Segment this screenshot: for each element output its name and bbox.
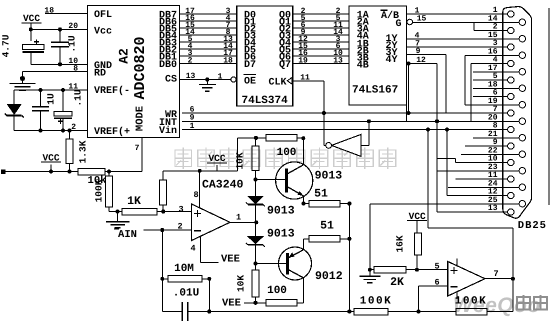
wire bias rail <box>1 170 6 175</box>
wire CS to OE with ground <box>180 79 231 81</box>
wire inverter input from INT line <box>361 144 369 146</box>
svg-text:9012: 9012 <box>315 270 343 283</box>
svg-text:CS: CS <box>165 75 177 86</box>
svg-text:100K: 100K <box>455 296 487 308</box>
svg-text:51: 51 <box>320 219 334 232</box>
node VREF(-) rail <box>14 89 87 91</box>
svg-text:100: 100 <box>267 285 287 297</box>
ground (top-left) <box>22 79 24 84</box>
svg-text:2: 2 <box>71 123 76 132</box>
svg-text:9013: 9013 <box>267 205 295 218</box>
svg-text:Vcc: Vcc <box>94 27 112 38</box>
bus DB7-DB0 wires U1 to U2 <box>180 13 237 15</box>
U2 OE bubble <box>231 77 236 82</box>
svg-text:VEE: VEE <box>221 254 240 266</box>
routing verticals to J1 <box>473 22 475 31</box>
svg-text:.01U: .01U <box>173 288 199 300</box>
svg-text:.1U: .1U <box>73 89 84 106</box>
zener diode D1 <box>13 90 15 104</box>
U3 G bubble <box>407 19 413 25</box>
svg-text:1K: 1K <box>127 195 141 208</box>
connector J1 DB25 shell <box>503 7 532 219</box>
wire Vin line <box>182 129 508 131</box>
svg-text:74LS167: 74LS167 <box>352 85 398 97</box>
wire RD pin8 to ground <box>22 72 24 79</box>
op IC U3 74LS157 body <box>349 6 407 105</box>
bus Q0-Q7 wires U2 to U3 <box>293 13 349 15</box>
svg-text:OE: OE <box>244 77 256 88</box>
svg-text:1: 1 <box>218 72 223 81</box>
svg-text:1.3K: 1.3K <box>78 140 89 163</box>
svg-text:100K: 100K <box>94 179 105 202</box>
svg-text:4: 4 <box>190 244 195 254</box>
transistor Q2 9012 <box>279 247 312 280</box>
svg-text:100K: 100K <box>360 296 392 308</box>
svg-text:100: 100 <box>277 147 297 159</box>
svg-text:DB25: DB25 <box>518 220 547 232</box>
svg-text:VEE: VEE <box>222 298 241 310</box>
wire threshold node vertical <box>369 204 371 270</box>
svg-text:51: 51 <box>314 188 328 201</box>
svg-text:2K: 2K <box>390 276 404 289</box>
wire chip-edge drop <box>406 105 408 121</box>
svg-text:CLK: CLK <box>268 77 286 88</box>
wire U6 pin6 <box>419 285 448 287</box>
op IC U2 74LS374 body <box>237 6 293 106</box>
svg-text:1: 1 <box>190 122 195 131</box>
wire VCC rail to Q1 bias <box>163 170 237 172</box>
svg-text:Q7: Q7 <box>279 60 291 71</box>
output bus wire <box>348 204 350 312</box>
node VREF(+) rail <box>14 130 87 132</box>
watermark: company name (gray CJK strokes) <box>175 148 396 170</box>
svg-text:16K: 16K <box>395 235 406 252</box>
svg-text:10M: 10M <box>174 263 194 275</box>
svg-text:OFL: OFL <box>94 10 112 21</box>
svg-text:2: 2 <box>188 56 193 65</box>
svg-text:5: 5 <box>434 262 439 272</box>
svg-text:MODE: MODE <box>135 106 147 131</box>
svg-text:9013: 9013 <box>267 228 295 241</box>
resistor R8 10K pull-up <box>162 171 164 180</box>
wire staircase to J1 pin10 <box>435 119 439 123</box>
svg-text:7: 7 <box>493 269 498 279</box>
transistor Q1 9013 <box>276 162 313 199</box>
svg-text:G: G <box>396 19 402 30</box>
svg-text:D7: D7 <box>244 60 256 71</box>
svg-text:1: 1 <box>236 212 241 222</box>
svg-text:19: 19 <box>298 56 308 65</box>
svg-text:AIN: AIN <box>118 229 137 241</box>
wire vertical to J1 pin12 <box>445 128 449 132</box>
U6 supply pin stubs <box>456 259 458 267</box>
svg-text:DB0: DB0 <box>159 60 177 71</box>
input terminal AIN <box>114 228 119 230</box>
svg-text:18: 18 <box>223 56 233 65</box>
svg-text:3: 3 <box>178 204 183 214</box>
wire U6 output pin7 <box>485 278 513 280</box>
wire U5 output pin1 <box>230 221 256 223</box>
svg-text:1U: 1U <box>46 93 57 105</box>
wire INT line <box>182 120 519 122</box>
U2 CLK pin11 wire <box>293 80 324 82</box>
svg-text:CA3240: CA3240 <box>202 179 244 192</box>
ADC mode pin wire <box>141 138 143 172</box>
svg-text:11: 11 <box>68 83 78 92</box>
svg-text:13: 13 <box>488 204 498 213</box>
svg-text:7: 7 <box>135 144 140 153</box>
wire U6 output feedback/route <box>512 279 514 312</box>
ground (CS/OE) <box>206 80 208 85</box>
ground (threshold) <box>369 271 371 276</box>
svg-text:13: 13 <box>333 56 343 65</box>
svg-text:4.7U: 4.7U <box>1 34 12 57</box>
wire U5 V+ pin8 <box>199 171 201 208</box>
svg-text:9013: 9013 <box>315 169 343 182</box>
ground (input) <box>117 212 119 222</box>
svg-text:RD: RD <box>94 69 106 80</box>
svg-text:74LS374: 74LS374 <box>242 95 289 107</box>
svg-text:.1U: .1U <box>67 35 78 52</box>
wire 3Y drop <box>407 54 446 56</box>
inverter U4 <box>332 134 362 156</box>
svg-text:10K: 10K <box>236 275 247 292</box>
op-amp U6 comparator <box>448 262 485 297</box>
svg-text:11: 11 <box>300 74 310 83</box>
svg-text:8: 8 <box>193 190 198 200</box>
svg-text:ADC0820: ADC0820 <box>132 36 149 99</box>
svg-text:15: 15 <box>417 14 427 23</box>
J1 pins 1-25 circles, stubs and numbers <box>407 13 508 15</box>
svg-text:VREF(+: VREF(+ <box>94 126 130 138</box>
svg-text:10K: 10K <box>234 152 245 169</box>
op IC U1 ADC0820 body <box>88 6 180 138</box>
svg-text:4Y: 4Y <box>386 55 398 66</box>
wire 4Y drop to pin13 <box>407 63 437 65</box>
wire U5 V- pin4 to VEE <box>200 236 202 263</box>
svg-text:A2: A2 <box>117 48 132 64</box>
svg-text:Vin: Vin <box>159 125 177 137</box>
wire WR line <box>182 112 508 114</box>
svg-text:VREF(-: VREF(- <box>94 85 130 97</box>
wire VCC to pin20 rail <box>30 23 32 41</box>
diode D2 9013 <box>255 180 257 196</box>
svg-text:13: 13 <box>186 72 196 81</box>
svg-text:4B: 4B <box>357 61 369 72</box>
J1 right side wire <box>548 8 550 205</box>
